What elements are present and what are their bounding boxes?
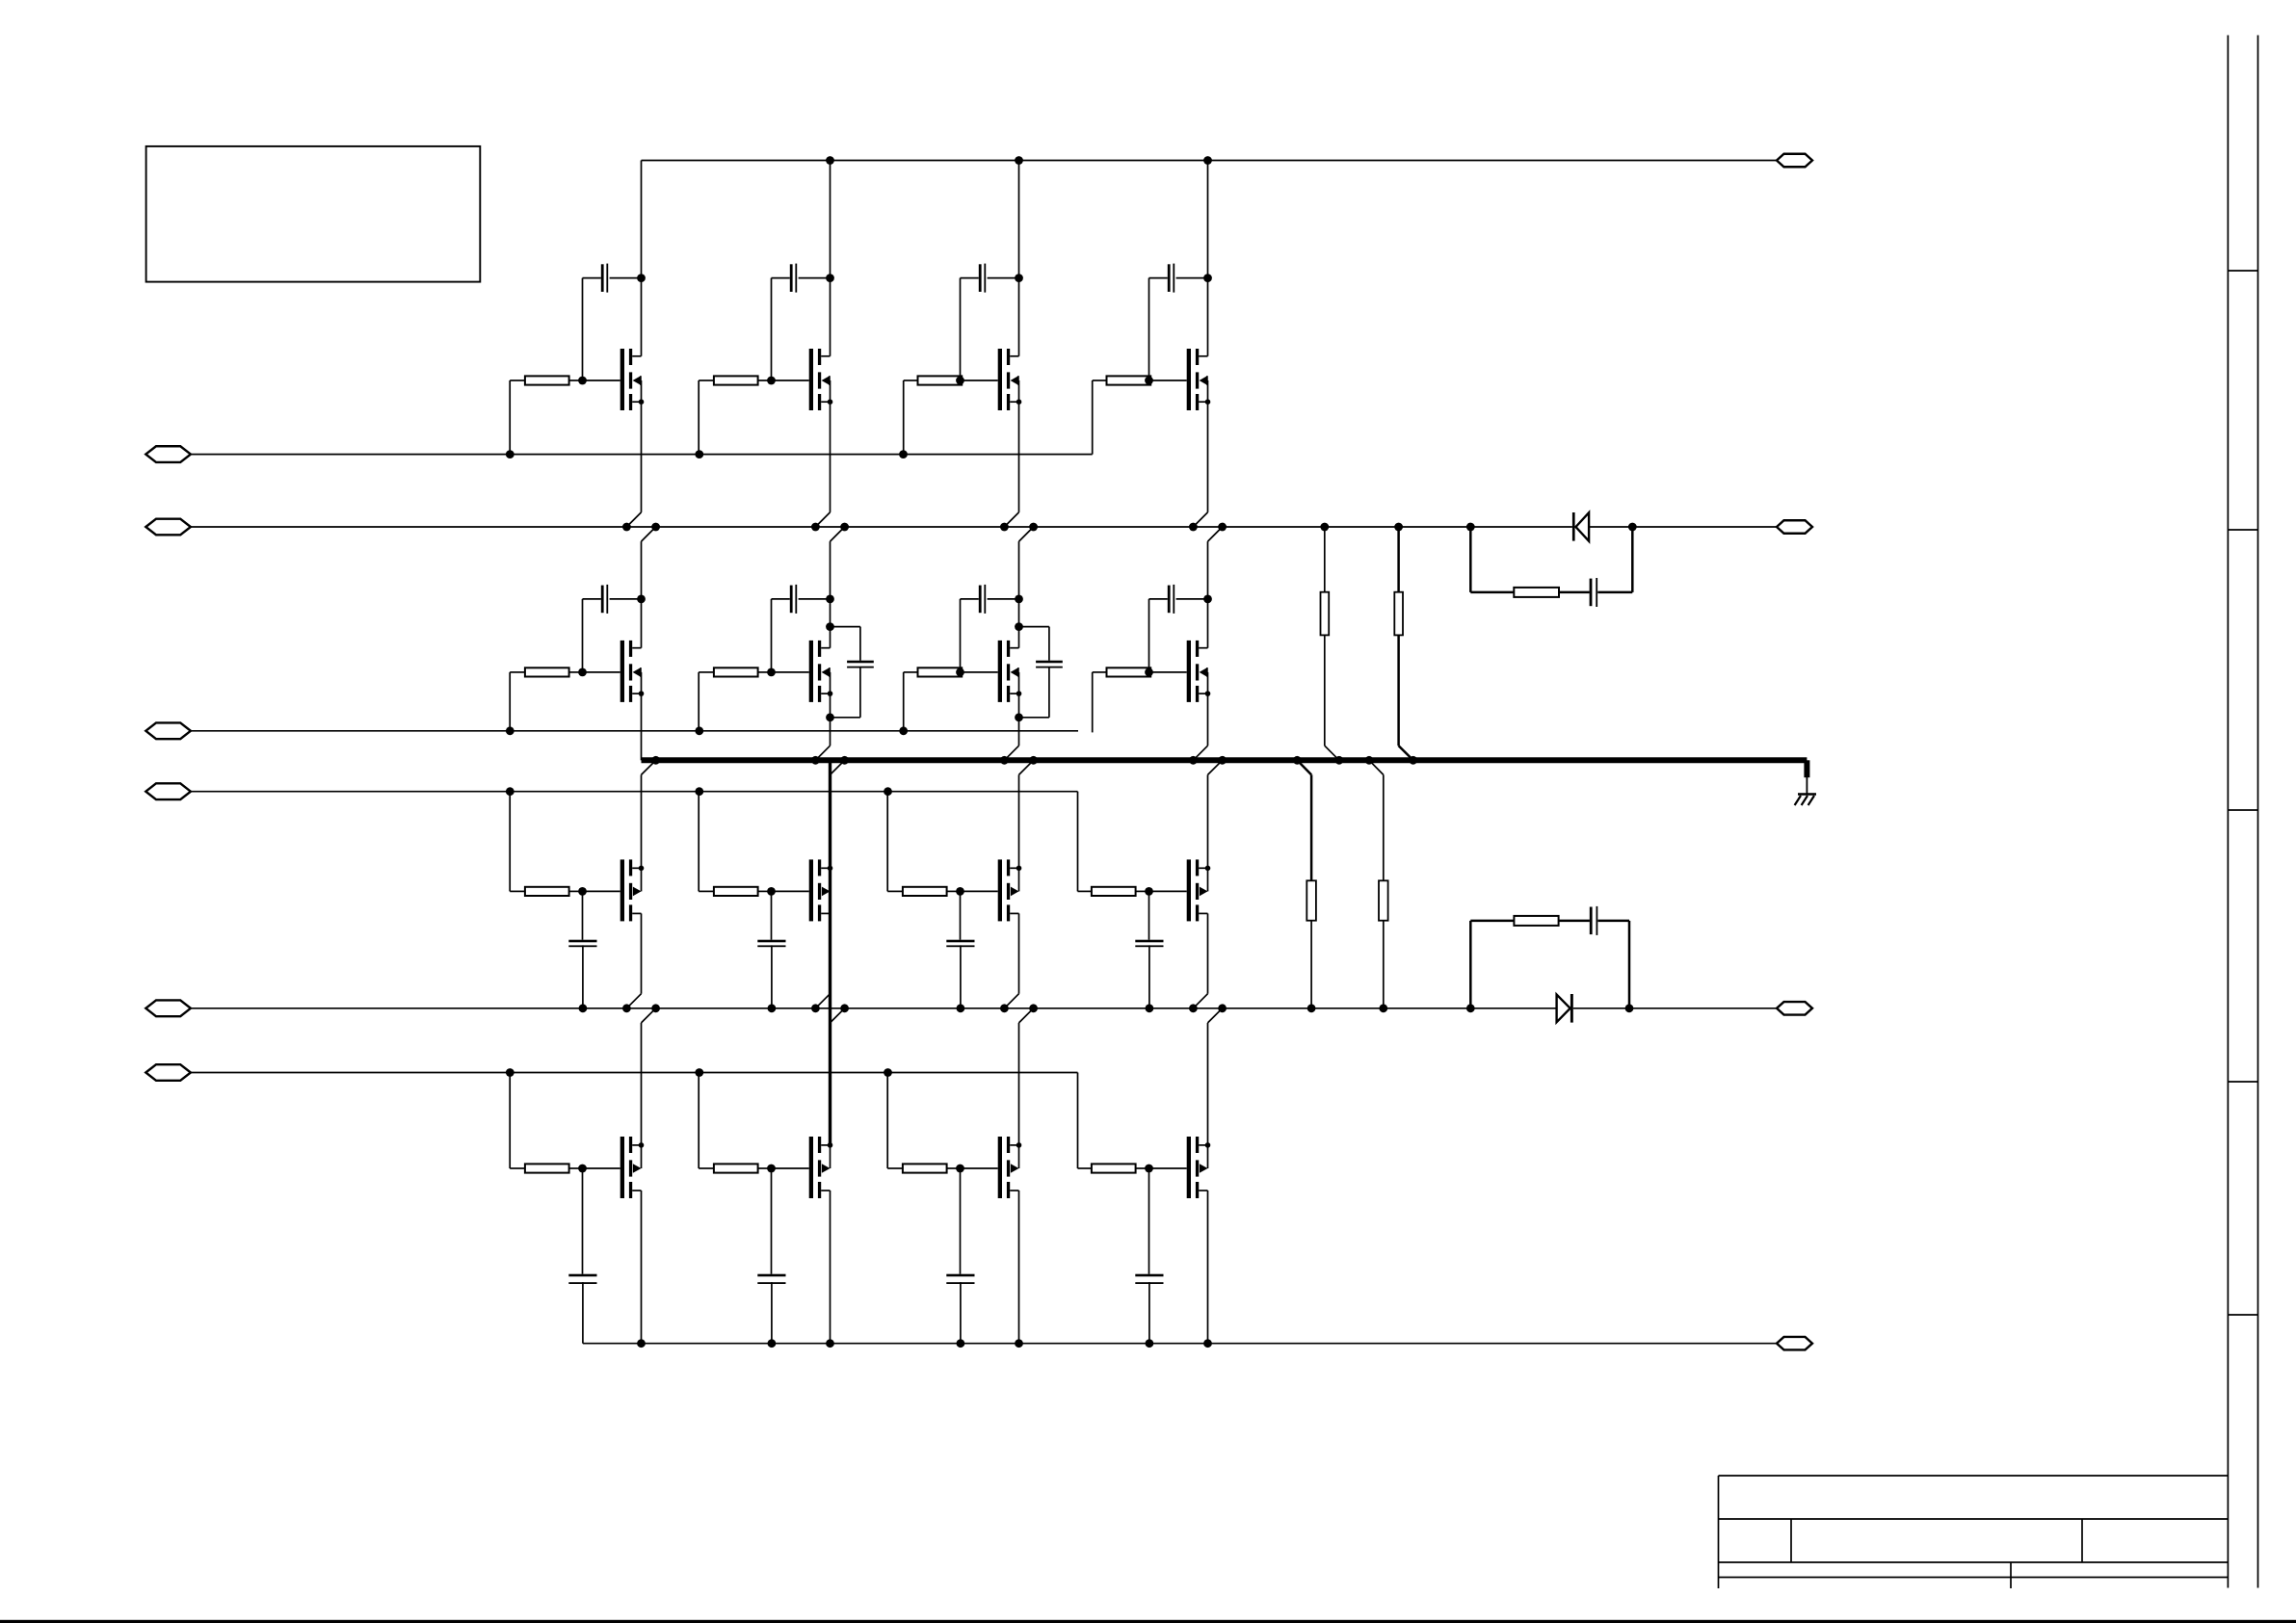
wire R left lead [904,380,918,381]
wire crossover jog [1004,994,1018,1008]
wire R left lead [699,380,714,381]
wire column 2 row2 source down [830,694,831,746]
sheet frame right inner line [2227,36,2229,1588]
wire source bus row1 (right of diode) [1589,526,1777,528]
wire column 4 row2 drain [1207,541,1209,648]
node gate of Q5 [578,668,587,677]
wire crossover jog [1193,746,1207,760]
wire gate lead [961,1167,998,1169]
ground symbol [1795,760,1816,805]
node snubber bottom junction [1015,713,1023,721]
resistor R2 [714,376,758,384]
node cap to bus junction [768,1004,777,1012]
wire gate rise [698,1073,699,1169]
wire column 3 row4 source to bottom bus [1018,1191,1020,1344]
wire gate drop [903,380,905,455]
wire gate lead [961,671,998,673]
wire column 3 row4 drain from jog [1018,1023,1020,1145]
node jog junctions [811,1004,820,1012]
node gate of Q2 [767,377,776,385]
transistor Q4 [1187,349,1211,410]
transistor Q6 [809,641,833,702]
transistor Q14 [809,1137,833,1198]
wire gate lead [1149,671,1187,673]
wire gate lead [1149,1167,1187,1169]
wire gate bus row4 drop to Q16 resistor [1077,1073,1079,1169]
wire R left lead [699,1167,714,1169]
node gate of Q15 [956,1165,964,1173]
wire column 2 row2 drain [830,541,831,648]
resistor R5 [525,668,569,676]
node cap/drain junction [826,274,834,282]
resistor R1 [525,376,569,384]
node gate of Q12 [1145,887,1153,896]
node cap/drain junction [1203,595,1212,604]
wire R right lead [961,380,963,381]
wire gate lead [772,380,809,381]
wire R right lead [1136,1167,1149,1169]
capacitor C7 [961,585,1019,672]
capacitor C11 [946,891,974,1008]
wire R right lead [758,890,772,892]
port P2 [145,519,191,536]
wire R left lead [510,890,525,892]
capacitor C9 [568,891,596,1008]
snubber 2: capacitor C20 [1590,906,1629,1008]
resistor R17 [1321,527,1339,760]
resistor R8 [1107,668,1151,676]
resistor R6 [714,668,758,676]
wire bottom source bus [583,1343,1777,1345]
wire R right lead [1149,671,1151,673]
wire column 1 row3 drain down [641,913,643,993]
wire column 3 row2 drain [1018,541,1020,648]
node gate of Q8 [1145,668,1153,677]
node R20 top [1365,756,1374,765]
wire R right lead [947,890,961,892]
node cap to bus junction [768,1339,777,1348]
node gate of Q4 [1145,377,1153,385]
wire R right lead [569,1167,583,1169]
wire crossover jog [642,760,656,774]
node R17 bottom [1335,756,1344,765]
resistor R12 [1092,887,1136,896]
wire R right lead [1136,890,1149,892]
resistor R4 [1107,376,1151,384]
wire column 2 row3 drain down [830,913,831,993]
transistor Q7 [998,641,1022,702]
node gate bus row1 junctions [506,450,515,458]
node gate of Q11 [956,887,964,896]
wire column 1 row3 source up [641,774,643,868]
frame tick [2228,1081,2257,1083]
wire crossover jog [1193,512,1207,527]
capacitor C6 [772,585,831,672]
wire gate lead [583,671,620,673]
transistor Q3 [998,349,1022,410]
wire column 3 row1 source down [1018,402,1020,512]
node snubber bottom junction [826,713,834,721]
wire R left lead [1078,1167,1092,1169]
wire gate bus row2 [191,730,1078,732]
resistor R14 [714,1164,758,1172]
transistor Q11 [998,859,1022,921]
wire R left lead [1093,380,1107,381]
wire column 1 row4 source to bottom bus [641,1191,643,1344]
wire gate lead [961,380,998,381]
wire column 4 row1 source down [1207,402,1209,512]
capacitor C16 [1135,1168,1163,1344]
capacitor C5 [583,585,642,672]
port P5 [145,1000,191,1016]
wire column 4 row4 source to bottom bus [1207,1191,1209,1344]
wire gate rise [886,792,888,892]
wire crossover jog [1004,512,1018,527]
wire R left lead [887,1167,903,1169]
frame tick [2228,529,2257,531]
wire crossover jog [626,994,641,1008]
wire R left lead [904,671,918,673]
resistor R9 [525,887,569,896]
resistor R3 [918,376,963,384]
node gate of Q9 [578,887,587,896]
node jog junctions [1000,1004,1009,1012]
wire gate lead [772,1167,809,1169]
diode D1 [1572,512,1589,541]
resistor R7 [918,668,963,676]
wire gate drop (floating end) [1092,672,1094,733]
wire column 3 drain to top bus [1018,161,1020,356]
node gate of Q16 [1145,1165,1153,1173]
wire R left lead [510,671,525,673]
wire R left lead [1093,671,1107,673]
wire R right lead [961,671,963,673]
wire column 3 row3 source up [1018,774,1020,868]
wire column 4 row3 source up [1207,774,1209,868]
node snubber1 right [1628,523,1637,532]
capacitor C17 drain-source snubber [831,627,874,718]
wire R left lead [1078,890,1092,892]
wire column 2 row1 source down [830,402,831,512]
node jog junctions [811,523,820,532]
node bottom bus junction [1203,1339,1212,1348]
capacitor C18 drain-source snubber [1019,627,1063,718]
thick column 2 net [829,760,831,1144]
node gate of Q10 [767,887,776,896]
frame tick [2228,809,2257,811]
node jog junctions [1189,1004,1198,1012]
node R19 bottom [1307,1004,1316,1012]
wire crossover jog [626,512,641,527]
capacitor C13 [568,1168,596,1344]
transistor Q5 [620,641,645,702]
wire gate lead [583,1167,620,1169]
node snubber top junction [826,622,834,631]
node snubber1 left [1466,523,1475,532]
wire R left lead [887,890,903,892]
wire R left lead [510,1167,525,1169]
wire gate lead [772,671,809,673]
diode D2 [1557,994,1573,1023]
wire R right lead [569,671,583,673]
resistor R19 [1297,760,1316,1008]
port P8 [1777,520,1812,534]
wire top drain bus [642,160,1778,162]
node R20 bottom [1379,1004,1387,1012]
wire column 4 drain to top bus [1207,161,1209,356]
resistor R15 [903,1164,947,1172]
wire gate drop [698,380,699,455]
capacitor C3 [961,264,1019,380]
wire R right lead [569,380,583,381]
wire column 1 row1 source down [641,402,643,512]
node R18 top [1394,523,1403,532]
wire R left lead [699,671,714,673]
transistor Q2 [809,349,833,410]
wire column 1 drain to top bus [641,161,643,356]
wire column 4 row4 drain from jog [1207,1023,1209,1145]
wire R right lead [758,671,772,673]
transistor Q13 [620,1137,645,1198]
wire R right lead [569,890,583,892]
wire crossover jog [1004,746,1018,760]
node top bus junctions [826,156,834,165]
node snubber2 left [1466,1004,1475,1012]
transistor Q9 [620,859,645,921]
wire gate rise [698,792,699,892]
capacitor C12 [1135,891,1163,1008]
wire crossover jog [815,512,830,527]
node cap/drain junction [1015,274,1023,282]
port P9 [1777,1002,1812,1015]
node jog junctions [1189,523,1198,532]
node R19 top [1293,756,1302,765]
transistor Q15 [998,1137,1022,1198]
resistor R18 [1394,527,1412,760]
port P3 [145,722,191,739]
node snubber top junction [1015,622,1023,631]
wire row3 drain bus (left of diode) [191,1008,1557,1009]
wire gate lead [583,380,620,381]
node cap to bus junction [957,1004,965,1012]
transistor Q16 [1187,1137,1211,1198]
port P10 [1777,1337,1812,1350]
node jog junctions [622,1004,631,1012]
thick common bus [642,757,1808,763]
node gate of Q1 [578,377,587,385]
node cap/drain junction [637,595,646,604]
node gate bus row4 junctions [506,1068,515,1077]
capacitor C14 [757,1168,785,1344]
wire gate lead [583,890,620,892]
wire gate bus row3 [191,791,1078,793]
port P1 [145,446,191,462]
frame tick [2228,270,2257,272]
wire R right lead [758,1167,772,1169]
wire gate drop [698,672,699,731]
node cap/drain junction [1015,595,1023,604]
wire column 3 row3 drain down [1018,913,1020,993]
node gate bus row2 junctions [506,726,515,735]
wire column 2 drain to top bus [830,161,831,356]
wire gate bus row4 [191,1072,1078,1074]
port P6 [145,1064,191,1081]
wire gate bus row3 drop to Q12 resistor [1077,792,1079,892]
port P7 [1777,154,1812,168]
frame tick [2228,1314,2257,1316]
wire column 1 row4 drain from jog [641,1023,643,1145]
snubber 2: resistor R22 [1470,916,1590,1008]
wire row3 drain bus (right of diode) [1573,1008,1777,1009]
capacitor C1 [583,264,642,380]
wire gate lead [1149,380,1187,381]
snubber 1: resistor R21 [1470,527,1589,597]
wire R left lead [510,380,525,381]
node cap/drain junction [1203,274,1212,282]
wire gate lead [1149,890,1187,892]
sheet frame right outer line [2257,36,2259,1588]
node jog junctions [1000,523,1009,532]
node jog junctions [1000,756,1009,765]
capacitor C4 [1149,264,1208,380]
node jog junctions [1189,756,1198,765]
node gate of Q6 [767,668,776,677]
node jog junctions [811,756,820,765]
node bottom bus junction [826,1339,834,1348]
transistor Q12 [1187,859,1211,921]
wire gate bus row1 riser to Q4 resistor [1092,380,1094,455]
wire R right lead [758,380,772,381]
wire gate rise [509,1073,511,1169]
node cap to bus junction [579,1004,588,1012]
node snubber2 right [1625,1004,1634,1012]
node cap to bus junction [1146,1339,1154,1348]
title block [1719,1476,2229,1588]
wire gate lead [772,890,809,892]
bottom border bar [0,1620,2296,1623]
wire gate rise [886,1073,888,1169]
wire crossover jog [815,994,830,1008]
resistor R10 [714,887,758,896]
wire column 1 row2 source down [641,694,643,760]
node cap to bus junction [1146,1004,1154,1012]
wire source bus row1 (left of diode) [191,526,1572,528]
wire gate drop [903,672,905,731]
wire crossover jog [815,746,830,760]
node thick bus tap [651,756,660,765]
wire column 4 row3 drain down [1207,913,1209,993]
node gate bus row3 junctions [506,787,515,796]
capacitor C8 [1149,585,1208,672]
capacitor C10 [757,891,785,1008]
wire gate rise [509,792,511,892]
wire gate bus row1 [191,454,1093,456]
wire gate lead [961,890,998,892]
transistor Q10 [809,859,833,921]
node R17 top [1320,523,1329,532]
port P4 [145,783,191,799]
notes box (empty) [146,146,481,282]
resistor R20 [1369,760,1388,1008]
node gate of Q3 [956,377,964,385]
wire R right lead [1149,380,1151,381]
node cap/drain junction [637,274,646,282]
node jog junctions [622,523,631,532]
wire crossover jog [1193,994,1207,1008]
resistor R13 [525,1164,569,1172]
wire column 4 row2 source down [1207,694,1209,746]
node gate of Q14 [767,1165,776,1173]
node R18 bottom [1409,756,1417,765]
capacitor C2 [772,264,831,380]
node cap to bus junction [957,1339,965,1348]
wire column 1 row2 drain [641,541,643,648]
node gate of Q13 [578,1165,587,1173]
wire gate drop [509,672,511,731]
node bottom bus junction [637,1339,646,1348]
wire column 3 row2 source down [1018,694,1020,746]
capacitor C15 [946,1168,974,1344]
node gate of Q7 [956,668,964,677]
resistor R16 [1092,1164,1136,1172]
wire column 2 row4 source to bottom bus [830,1191,831,1344]
node bottom bus junction [1015,1339,1023,1348]
transistor Q1 [620,349,645,410]
wire gate drop [509,380,511,455]
resistor R11 [903,887,947,896]
node cap/drain junction [826,595,834,604]
transistor Q8 [1187,641,1211,702]
snubber 1: capacitor C19 [1590,527,1633,607]
wire R left lead [699,890,714,892]
wire R right lead [947,1167,961,1169]
